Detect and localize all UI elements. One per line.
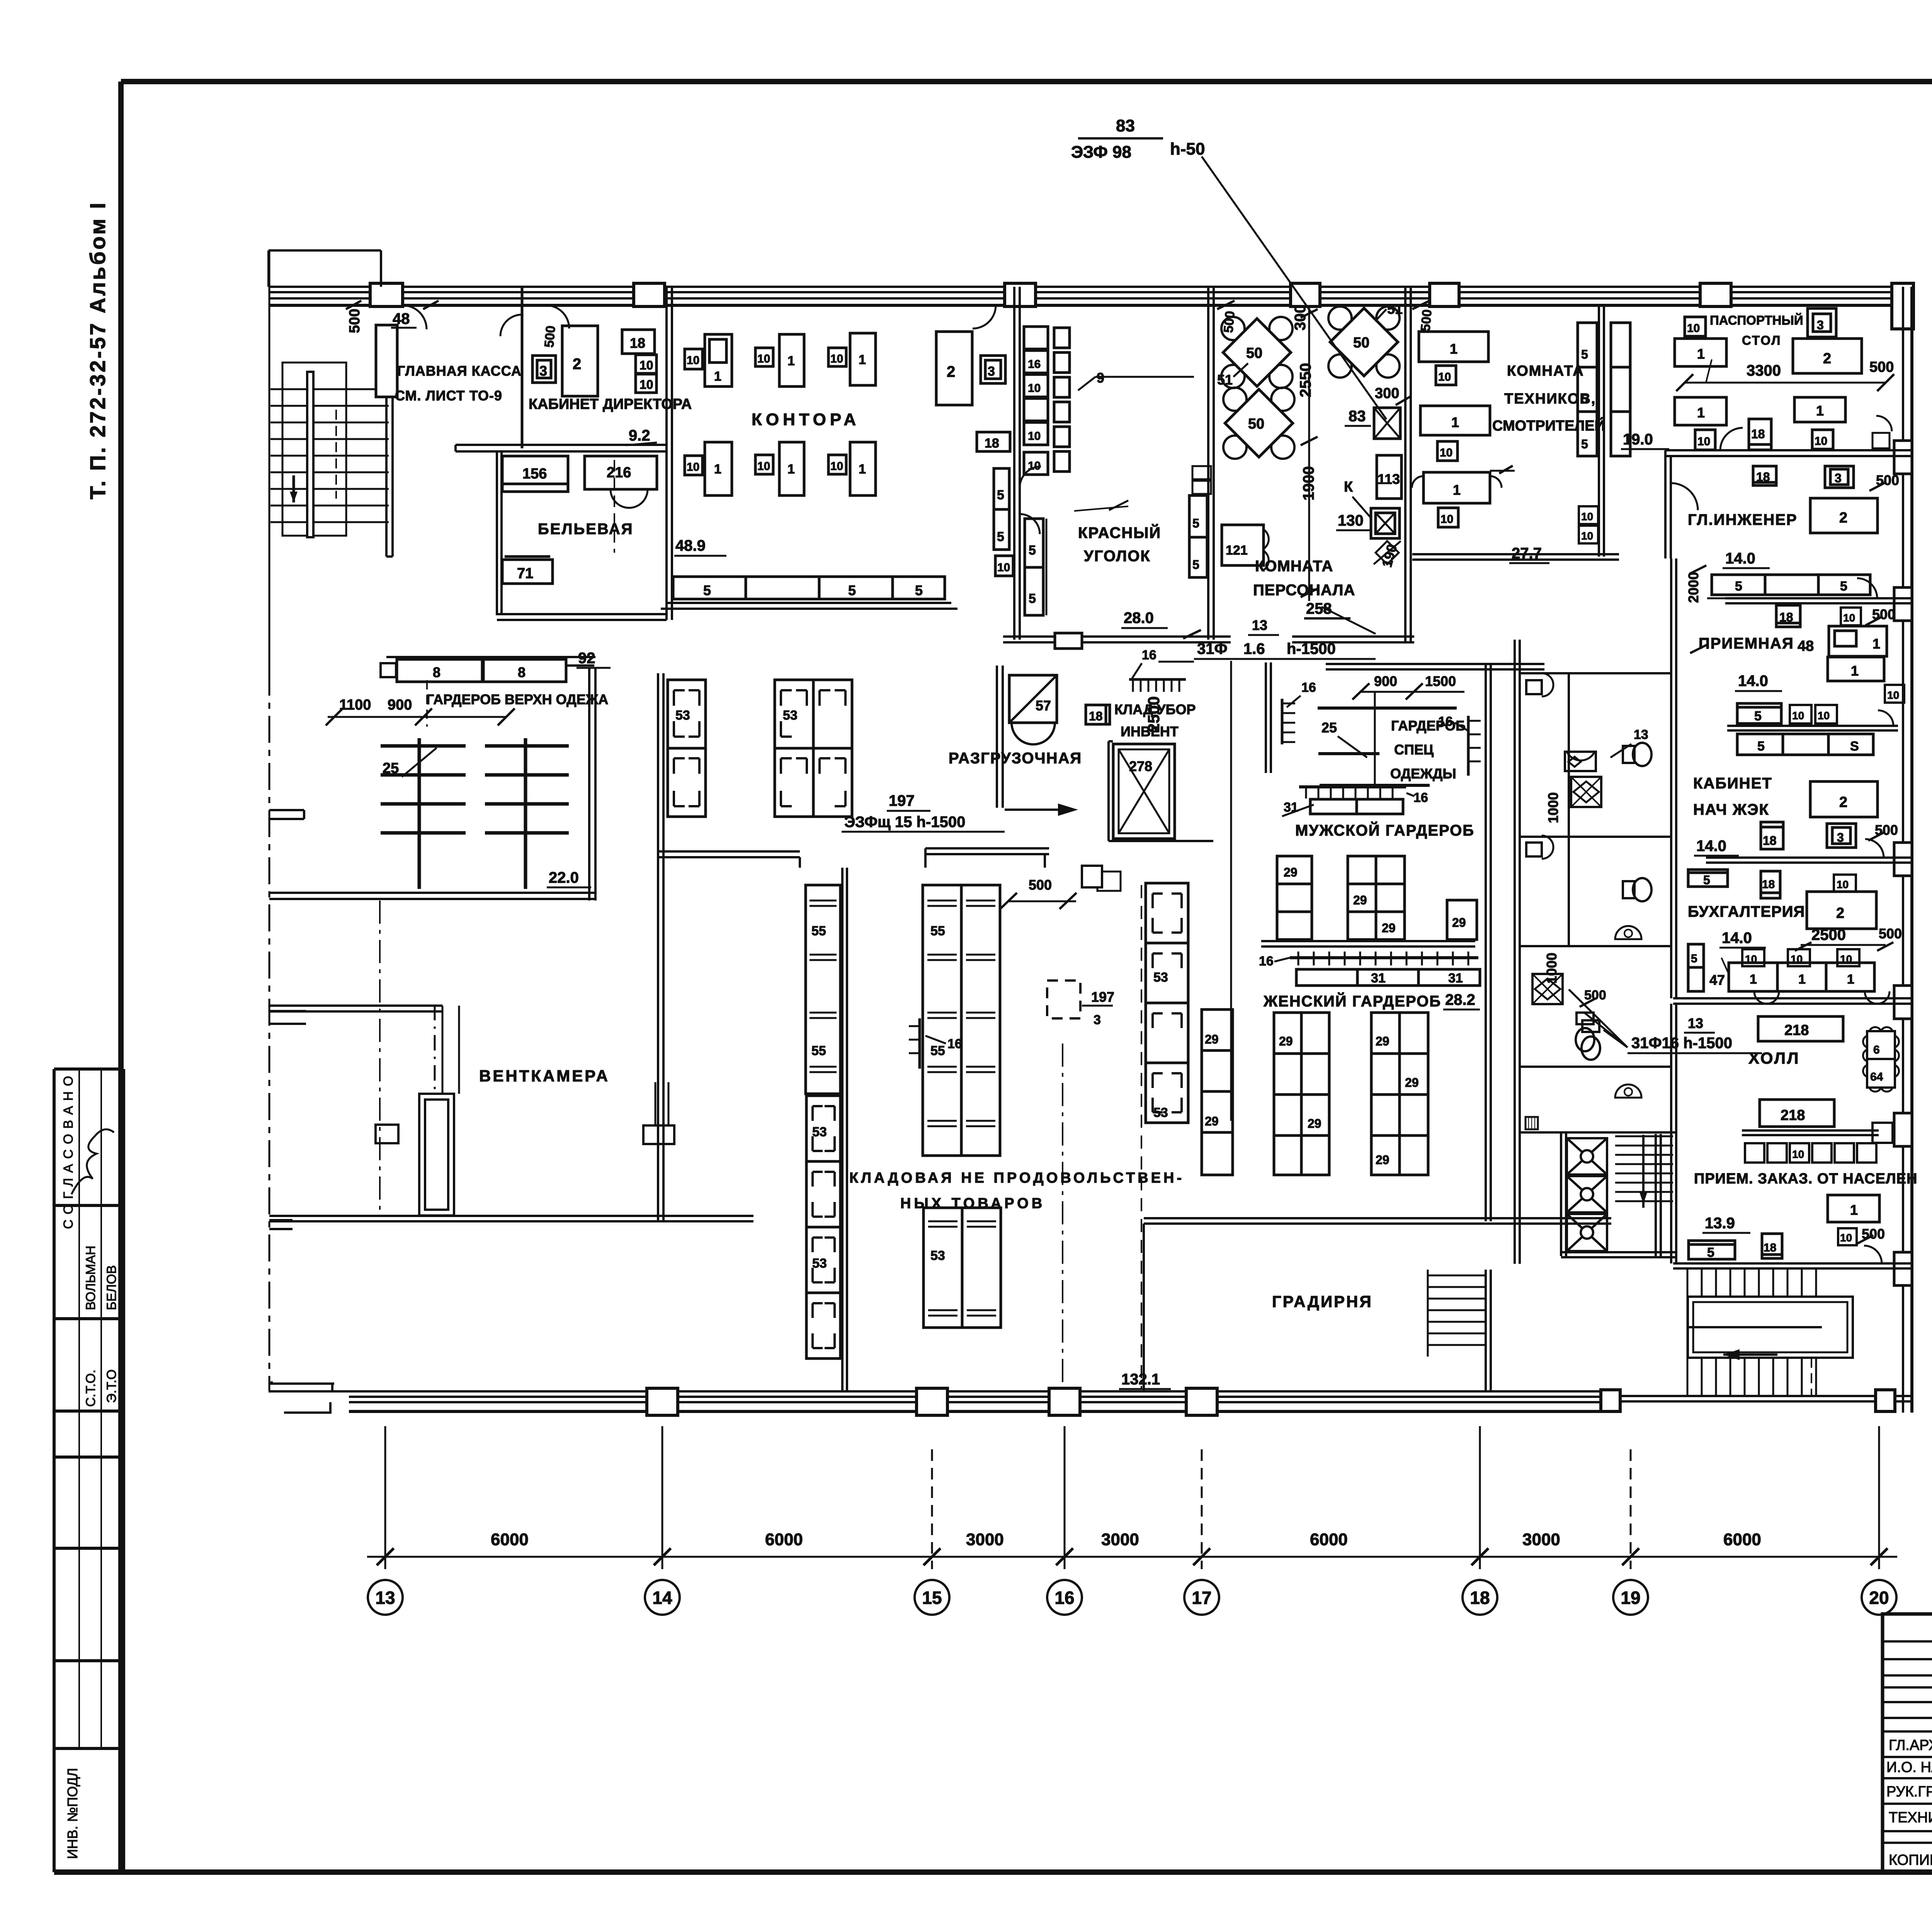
row2	[1675, 397, 1726, 425]
svg-text:31: 31	[1371, 971, 1386, 986]
svg-text:2000: 2000	[1685, 572, 1701, 603]
bench 5/5 vertical right	[994, 468, 1009, 550]
svg-text:ХОЛЛ: ХОЛЛ	[1748, 1049, 1800, 1067]
bottom dimension chain axes 13-20	[367, 1426, 1897, 1615]
svg-text:5: 5	[1581, 347, 1588, 361]
svg-text:13: 13	[375, 1588, 395, 1608]
svg-text:16: 16	[1259, 954, 1274, 969]
shelving column 1	[1024, 327, 1048, 349]
svg-text:КАБИНЕТ: КАБИНЕТ	[1693, 775, 1772, 792]
secondary stair	[1615, 1135, 1673, 1208]
svg-text:48: 48	[1798, 638, 1814, 654]
svg-text:РУК.ГРУППЫ: РУК.ГРУППЫ	[1886, 1784, 1932, 1800]
svg-text:14.0: 14.0	[1738, 672, 1768, 689]
svg-text:5: 5	[1707, 1245, 1714, 1260]
comb 16 mid	[918, 1018, 921, 1069]
svg-text:18: 18	[1756, 470, 1770, 484]
svg-text:2: 2	[1839, 510, 1847, 526]
svg-text:1.6: 1.6	[1243, 640, 1265, 657]
furniture Холл counters 218	[1689, 1016, 1899, 1263]
Бельевая: cabinet 156	[502, 456, 568, 492]
svg-text:10: 10	[1028, 430, 1041, 443]
bubbles	[368, 1580, 1896, 1615]
svg-text:5: 5	[997, 529, 1004, 544]
svg-text:10: 10	[687, 354, 699, 367]
svg-text:16: 16	[1413, 790, 1428, 805]
svg-text:3: 3	[1094, 1013, 1101, 1027]
svg-text:18: 18	[1751, 427, 1765, 441]
svg-text:НЫХ ТОВАРОВ: НЫХ ТОВАРОВ	[900, 1195, 1045, 1212]
svg-text:1: 1	[1451, 414, 1459, 430]
svg-text:55: 55	[811, 1044, 826, 1058]
Разгрузочная corridor walls	[658, 666, 1049, 868]
coat rack group 2	[485, 744, 569, 748]
wall касса/директор	[521, 287, 524, 448]
svg-text:ЭЗФщ 15 h-1500: ЭЗФщ 15 h-1500	[844, 814, 965, 831]
diamond table 50 (1)	[1221, 317, 1293, 388]
Красный уголок walls	[1003, 287, 1414, 649]
svg-text:18: 18	[1779, 610, 1793, 624]
Мужской гардероб walls	[1231, 661, 1544, 1121]
svg-text:ПАСПОРТНЫЙ: ПАСПОРТНЫЙ	[1710, 313, 1803, 327]
svg-text:ГЛ.АРХПР-ТА: ГЛ.АРХПР-ТА	[1889, 1737, 1932, 1753]
lift shafts	[1567, 1138, 1607, 1251]
svg-text:28.2: 28.2	[1445, 991, 1475, 1008]
svg-text:10: 10	[1438, 371, 1451, 383]
lockers 29 row above shelf	[1277, 856, 1312, 940]
svg-text:БЕЛОВ: БЕЛОВ	[104, 1265, 119, 1310]
Прием заказов bottom wall	[1673, 1263, 1912, 1268]
cabinet 216	[585, 456, 657, 489]
svg-text:5: 5	[1840, 579, 1847, 594]
svg-text:ИНВ. №ПОДЛ: ИНВ. №ПОДЛ	[65, 1768, 80, 1859]
furniture Кабинет директора / Бельевая	[500, 305, 657, 584]
svg-text:55: 55	[930, 1044, 945, 1058]
svg-text:29: 29	[1284, 865, 1298, 879]
svg-text:218: 218	[1781, 1107, 1805, 1124]
svg-text:ПРИЕМ. ЗАКАЗ. ОТ НАСЕЛЕН: ПРИЕМ. ЗАКАЗ. ОТ НАСЕЛЕН	[1694, 1171, 1917, 1187]
comb2	[1467, 716, 1470, 776]
wall under офисы	[456, 445, 667, 451]
53 block below col2	[923, 1208, 1001, 1328]
Контора left wall	[667, 287, 672, 620]
svg-text:130: 130	[1338, 512, 1364, 529]
svg-text:6000: 6000	[491, 1530, 529, 1549]
svg-text:h-50: h-50	[1170, 140, 1205, 158]
svg-text:18: 18	[1762, 878, 1775, 891]
comb row	[1290, 956, 1478, 959]
svg-text:31Ф16 h-1500: 31Ф16 h-1500	[1631, 1035, 1732, 1052]
svg-text:3: 3	[1817, 318, 1824, 332]
svg-text:71: 71	[517, 565, 533, 582]
svg-text:47: 47	[1709, 972, 1725, 988]
wall shelves column	[1578, 323, 1597, 456]
svg-text:РАЗГРУЗОЧНАЯ: РАЗГРУЗОЧНАЯ	[949, 750, 1082, 767]
svg-text:8: 8	[433, 664, 440, 680]
desk 2 right	[936, 332, 972, 405]
svg-text:2500: 2500	[1145, 696, 1163, 732]
svg-text:9.2: 9.2	[629, 427, 650, 444]
svg-text:5: 5	[1691, 952, 1697, 965]
svg-text:10: 10	[997, 561, 1010, 574]
svg-text:1: 1	[1872, 636, 1880, 652]
Градирня stair	[1428, 1270, 1491, 1391]
svg-text:13.9: 13.9	[1705, 1215, 1735, 1232]
55 column 2 (double)	[923, 885, 1000, 1156]
upper 53 column single	[668, 680, 706, 817]
svg-text:13: 13	[1252, 617, 1267, 633]
table 6/64 scalloped	[1863, 1027, 1899, 1092]
svg-text:16: 16	[1142, 648, 1156, 662]
55 column 1	[806, 885, 840, 1094]
stairwell top-left	[270, 363, 389, 537]
svg-text:29: 29	[1353, 893, 1367, 907]
WC fixtures	[1526, 565, 1707, 1129]
comb1 vertical	[1281, 699, 1284, 744]
floor drains	[1565, 752, 1596, 771]
counter 218 (1)	[1758, 1016, 1843, 1041]
door arc top	[973, 305, 996, 329]
svg-text:НАЧ ЖЭК: НАЧ ЖЭК	[1693, 801, 1769, 818]
desk group r1c1	[685, 349, 702, 369]
svg-text:53: 53	[1153, 970, 1168, 985]
svg-text:5: 5	[1192, 558, 1199, 572]
furniture Кабинет нач ЖЭК	[1761, 781, 1898, 858]
door arc	[1020, 466, 1041, 488]
exterior right wall axis 20	[1894, 287, 1912, 1413]
svg-text:18: 18	[630, 335, 645, 351]
slim column 2	[1054, 328, 1070, 348]
left signature table	[1883, 1614, 1932, 1872]
Гардероб верхней одежды walls	[269, 657, 595, 901]
lift and stair2 walls	[1561, 1004, 1677, 1263]
svg-text:КРАСНЫЙ: КРАСНЫЙ	[1078, 524, 1161, 541]
svg-text:3300: 3300	[1747, 362, 1781, 379]
svg-text:53: 53	[812, 1125, 827, 1139]
svg-text:55: 55	[811, 924, 826, 938]
svg-text:10: 10	[639, 378, 653, 392]
svg-text:1: 1	[787, 462, 795, 477]
svg-text:10: 10	[1792, 1148, 1804, 1160]
svg-text:10: 10	[1028, 382, 1041, 395]
svg-text:10: 10	[639, 358, 653, 372]
svg-text:КАБИНЕТ ДИРЕКТОРА: КАБИНЕТ ДИРЕКТОРА	[529, 396, 692, 412]
svg-text:19: 19	[1621, 1588, 1640, 1608]
counter 5	[1689, 1241, 1735, 1259]
svg-text:ОДЕЖДЫ: ОДЕЖДЫ	[1390, 766, 1456, 781]
svg-text:1: 1	[859, 462, 866, 477]
Венткамера walls	[269, 673, 753, 1221]
Паспортный стол bottom wall	[1665, 450, 1912, 558]
svg-text:6: 6	[1873, 1044, 1880, 1056]
svg-text:ВОЛЬМАН: ВОЛЬМАН	[83, 1246, 98, 1310]
svg-text:1: 1	[714, 462, 721, 477]
svg-text:10: 10	[687, 461, 699, 473]
svg-text:5: 5	[1754, 709, 1762, 724]
svg-text:10: 10	[1440, 513, 1453, 526]
desk group r2c3	[828, 455, 846, 474]
svg-text:3000: 3000	[1101, 1530, 1139, 1549]
svg-text:МУЖСКОЙ ГАРДЕРОБ: МУЖСКОЙ ГАРДЕРОБ	[1295, 821, 1475, 839]
svg-text:1: 1	[1750, 972, 1757, 987]
svg-text:18: 18	[1763, 834, 1777, 848]
furniture Приемная	[1727, 605, 1904, 755]
desk 1 with side arcs r3	[1423, 472, 1490, 503]
svg-text:29: 29	[1279, 1034, 1293, 1048]
cabinet 71	[502, 560, 553, 584]
svg-text:5: 5	[1581, 392, 1588, 406]
техников walls	[1412, 305, 1619, 560]
svg-text:18: 18	[1089, 709, 1103, 723]
svg-text:СПЕЦ: СПЕЦ	[1394, 742, 1434, 758]
sinks	[1526, 680, 1542, 694]
svg-text:ГЛАВНАЯ КАССА: ГЛАВНАЯ КАССА	[397, 363, 522, 379]
svg-text:ЖЕНСКИЙ ГАРДЕРОБ: ЖЕНСКИЙ ГАРДЕРОБ	[1263, 992, 1441, 1010]
svg-text:57: 57	[1036, 698, 1051, 713]
svg-text:5: 5	[997, 488, 1004, 502]
stairwell right wall	[376, 325, 397, 557]
svg-text:1100: 1100	[339, 697, 371, 713]
svg-text:83: 83	[1349, 408, 1366, 425]
svg-text:10: 10	[1843, 612, 1855, 624]
svg-text:14.0: 14.0	[1696, 838, 1726, 855]
furniture Контора desks	[673, 301, 1435, 599]
svg-text:1: 1	[1816, 403, 1824, 419]
upper 53 block 2x2	[775, 680, 852, 817]
svg-text:10: 10	[1815, 435, 1827, 448]
svg-text:10: 10	[757, 352, 770, 365]
svg-text:3: 3	[988, 364, 995, 379]
svg-text:СТОЛ: СТОЛ	[1742, 333, 1781, 347]
svg-text:500: 500	[1418, 309, 1435, 332]
cabinet 18 right	[977, 432, 1010, 451]
tick slashes	[377, 1548, 1888, 1565]
table 121 with chairs	[1222, 525, 1264, 565]
svg-text:5: 5	[1735, 579, 1742, 594]
svg-text:51: 51	[1217, 372, 1233, 388]
corridor annotations	[1071, 116, 1762, 1053]
svg-text:КОМНАТА: КОМНАТА	[1507, 363, 1584, 379]
svg-text:1: 1	[714, 369, 721, 384]
svg-text:КОНТОРА: КОНТОРА	[752, 410, 860, 429]
svg-text:ГАРДЕРОБ: ГАРДЕРОБ	[1391, 718, 1466, 734]
svg-text:14.0: 14.0	[1722, 930, 1752, 947]
svg-text:10: 10	[1818, 710, 1830, 722]
svg-text:Т. П. 272-32-57 Альбом I: Т. П. 272-32-57 Альбом I	[85, 201, 110, 499]
svg-text:1: 1	[1798, 972, 1806, 987]
svg-text:2500: 2500	[1811, 926, 1846, 943]
desk 1 + tumba	[1828, 1195, 1879, 1222]
comb rack + 16	[1129, 678, 1186, 681]
counter + benches	[1737, 703, 1781, 724]
svg-text:1: 1	[1453, 482, 1461, 498]
extension lines	[384, 1426, 386, 1569]
svg-text:С О Г Л А С О В А Н О: С О Г Л А С О В А Н О	[61, 1075, 76, 1229]
lift 278	[1113, 744, 1175, 839]
svg-text:1: 1	[1450, 341, 1458, 357]
top wall pier blocks	[370, 283, 403, 306]
svg-text:218: 218	[1784, 1022, 1809, 1038]
device 57	[1009, 675, 1057, 723]
left wall axis 13	[269, 251, 306, 1391]
53 column 3 right	[1146, 883, 1188, 1123]
toilets	[1623, 743, 1651, 766]
svg-text:20: 20	[1869, 1588, 1889, 1608]
svg-text:1000: 1000	[1545, 792, 1561, 823]
bottom bench row	[673, 577, 945, 599]
svg-text:10: 10	[1697, 435, 1710, 448]
svg-text:19.0: 19.0	[1623, 431, 1653, 448]
left step of bottom wall	[269, 1381, 349, 1391]
svg-text:2: 2	[1836, 905, 1844, 921]
diamond table 50 (3)	[1328, 306, 1400, 378]
bench 31	[1310, 799, 1403, 814]
counter 218 (2)	[1760, 1100, 1834, 1127]
svg-text:5: 5	[703, 582, 711, 598]
svg-text:2: 2	[1823, 351, 1831, 367]
Венткамера ducts	[376, 901, 674, 1216]
svg-text:3: 3	[539, 363, 547, 379]
bench 31 31	[1296, 969, 1480, 986]
svg-text:ЭЗФ 98: ЭЗФ 98	[1071, 143, 1131, 162]
Кладовая shelving 53/55	[668, 680, 1188, 1389]
desk 1 + tumba r2	[1420, 406, 1490, 435]
svg-text:500: 500	[1584, 988, 1606, 1003]
svg-text:3000: 3000	[966, 1530, 1004, 1549]
18 box	[1086, 705, 1110, 724]
svg-text:500: 500	[542, 325, 558, 348]
svg-text:53: 53	[930, 1248, 945, 1263]
svg-text:СМОТРИТЕЛЕЙ: СМОТРИТЕЛЕЙ	[1492, 417, 1605, 434]
svg-text:121: 121	[1226, 543, 1248, 558]
svg-text:27.7: 27.7	[1512, 545, 1542, 562]
Женский гардероб lockers 29	[1202, 856, 1480, 1175]
svg-text:18: 18	[1764, 1241, 1776, 1254]
underline 258	[1304, 617, 1350, 620]
svg-text:КЛАДОВАЯ НЕ ПРОДОВОЛЬСТВЕН-: КЛАДОВАЯ НЕ ПРОДОВОЛЬСТВЕН-	[849, 1170, 1184, 1186]
svg-text:31Ф: 31Ф	[1197, 640, 1228, 657]
exterior bottom wall row И	[269, 1381, 1912, 1415]
svg-text:1: 1	[787, 354, 795, 368]
svg-text:29: 29	[1452, 916, 1466, 930]
svg-text:55: 55	[930, 924, 945, 938]
svg-text:300: 300	[1292, 305, 1309, 330]
desk group r2c1	[685, 456, 702, 475]
svg-text:14: 14	[652, 1588, 672, 1608]
svg-text:500: 500	[347, 309, 363, 333]
furniture Паспортный стол desks	[1675, 308, 1894, 450]
svg-text:ГАРДЕРОБ ВЕРХН ОДЕЖА: ГАРДЕРОБ ВЕРХН ОДЕЖА	[426, 691, 608, 707]
Мужской гардероб racks	[1282, 673, 1481, 816]
Гл.инженер bottom wall	[1725, 598, 1912, 603]
svg-text:29: 29	[1205, 1032, 1219, 1046]
svg-text:2: 2	[1839, 794, 1847, 810]
svg-text:50: 50	[1248, 416, 1264, 432]
svg-text:16: 16	[1438, 714, 1453, 729]
bottom comb row	[1299, 785, 1406, 788]
svg-text:1: 1	[1850, 1202, 1858, 1218]
svg-text:1900: 1900	[1300, 466, 1317, 501]
Бельевая walls	[497, 451, 667, 620]
svg-text:13: 13	[1634, 727, 1648, 742]
svg-text:18: 18	[985, 436, 999, 451]
svg-text:10: 10	[1581, 511, 1593, 523]
svg-text:17: 17	[1192, 1588, 1211, 1608]
svg-text:16: 16	[1028, 358, 1041, 371]
svg-text:48.9: 48.9	[675, 537, 706, 554]
svg-text:10: 10	[1687, 322, 1700, 335]
svg-text:18: 18	[1470, 1588, 1490, 1608]
counters 8 8	[397, 659, 482, 682]
boxes 10 10	[636, 355, 656, 373]
svg-text:5: 5	[915, 582, 923, 598]
svg-text:500: 500	[1879, 926, 1902, 941]
svg-text:К: К	[1344, 479, 1353, 495]
desk group r1c2	[755, 348, 773, 366]
svg-text:16: 16	[1301, 680, 1316, 695]
dashed axis x=2750	[1062, 1044, 1063, 1387]
bench row	[1712, 575, 1870, 595]
svg-text:ВЕНТКАМЕРА: ВЕНТКАМЕРА	[479, 1067, 610, 1085]
svg-text:53: 53	[1153, 1105, 1168, 1120]
exterior top wall row Р	[269, 250, 1913, 329]
svg-text:1: 1	[1697, 405, 1705, 420]
svg-text:10: 10	[1887, 689, 1899, 701]
svg-text:ТЕХНИК: ТЕХНИК	[1889, 1810, 1932, 1826]
svg-text:1000: 1000	[1544, 953, 1560, 984]
svg-text:ПРИЕМНАЯ: ПРИЕМНАЯ	[1699, 635, 1794, 652]
svg-text:2550: 2550	[1297, 363, 1314, 397]
svg-text:16: 16	[1054, 1588, 1074, 1608]
dim 3300	[1685, 382, 1886, 384]
svg-text:3: 3	[1837, 831, 1844, 844]
furniture Комната техников desks	[1412, 323, 1673, 543]
svg-text:1: 1	[1847, 972, 1854, 987]
svg-text:500: 500	[1029, 877, 1052, 893]
53 boxes below col1	[806, 1096, 840, 1359]
Кабинет нач ЖЭК walls	[1673, 858, 1912, 1004]
svg-text:БЕЛЬЕВАЯ: БЕЛЬЕВАЯ	[538, 521, 633, 538]
svg-text:53: 53	[675, 708, 690, 723]
svg-text:197: 197	[1091, 989, 1114, 1005]
svg-text:2: 2	[573, 356, 581, 373]
desk group r2c2	[755, 455, 773, 474]
WC block walls	[1486, 558, 1677, 1264]
diamond table 50 (2)	[1223, 388, 1294, 459]
svg-text:14.0: 14.0	[1725, 550, 1755, 567]
box 18	[1762, 1234, 1782, 1258]
svg-text:5: 5	[1581, 437, 1588, 451]
svg-text:3: 3	[1835, 471, 1842, 485]
svg-text:КОПИРОВ.: КОПИРОВ.	[1889, 1852, 1932, 1868]
svg-text:16: 16	[947, 1037, 962, 1051]
dim texts	[491, 1530, 1761, 1549]
door arc wall A	[500, 315, 522, 336]
furniture Комната персонала tables	[1189, 301, 1410, 618]
svg-text:29: 29	[1308, 1117, 1321, 1130]
svg-text:83: 83	[1116, 116, 1135, 135]
svg-text:1: 1	[1851, 663, 1859, 679]
counter row	[1688, 944, 1704, 991]
svg-text:ГРАДИРНЯ: ГРАДИРНЯ	[1272, 1292, 1373, 1311]
stair door + dim 500/48	[346, 301, 439, 333]
svg-text:64: 64	[1870, 1071, 1883, 1083]
svg-text:29: 29	[1405, 1076, 1419, 1090]
svg-text:10: 10	[1792, 710, 1804, 722]
Кладовая/Градирня walls	[842, 868, 1611, 1391]
svg-text:5: 5	[1029, 591, 1036, 606]
svg-text:Э.Т.О: Э.Т.О	[104, 1369, 119, 1403]
